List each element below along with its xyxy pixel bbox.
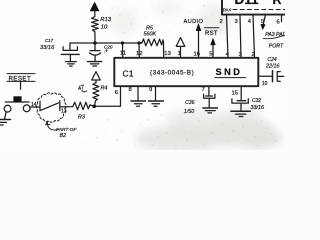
svg-text:C24: C24 (268, 57, 277, 63)
wire D11 pin3 to C1 pin3 (240, 15, 241, 58)
svg-text:C32: C32 (252, 98, 261, 104)
svg-text:33/16: 33/16 (40, 45, 55, 51)
paper background (0, 0, 285, 150)
wire pin 12 stub (138, 43, 140, 58)
resistor R4 (93, 83, 99, 107)
svg-text:7: 7 (202, 87, 205, 93)
dashed outline part of B2 (37, 93, 67, 122)
wire pin 11 stub (122, 43, 124, 58)
scan noise top right (111, 1, 232, 35)
svg-text:5: 5 (261, 19, 264, 25)
capacitor C24 (273, 71, 284, 82)
ground under C36 (203, 108, 218, 113)
svg-text:22/16: 22/16 (265, 63, 280, 69)
svg-text:R: R (273, 0, 282, 7)
reset pushbutton SW (4, 96, 30, 112)
svg-text:.+: .+ (104, 48, 108, 54)
svg-text:33/16: 33/16 (251, 105, 265, 111)
pin 9 stub (155, 86, 157, 101)
capacitor C32 (232, 99, 248, 111)
wire left contact to ground (5, 112, 7, 119)
svg-text:R4: R4 (101, 85, 108, 91)
capacitor C17 (62, 43, 80, 61)
pin name PA0 with dashed bus (223, 8, 285, 13)
leader squiggle to PART OF B2 (48, 121, 58, 130)
ground under pin 8 (131, 101, 146, 106)
svg-text:560K: 560K (144, 31, 157, 37)
svg-text:12: 12 (136, 51, 143, 57)
svg-text:10: 10 (262, 81, 268, 87)
svg-text:9: 9 (149, 87, 152, 93)
svg-text:16: 16 (194, 52, 201, 58)
svg-text:B2: B2 (60, 133, 67, 139)
svg-text:SND: SND (216, 67, 243, 77)
IC C1 box (114, 58, 258, 86)
ground under C32 (231, 111, 250, 116)
svg-text:D11: D11 (235, 0, 260, 7)
svg-text:15: 15 (232, 91, 239, 97)
node junction R4/R3/pin6 (92, 105, 96, 109)
open arrow on pin 1 (176, 38, 185, 58)
wire pin 13 stub from R5 (163, 43, 165, 58)
capacitor C36 (204, 94, 215, 108)
IC D11 box (partially visible) (222, 0, 285, 15)
svg-text:PA3 PAD: PA3 PAD (265, 32, 285, 38)
svg-text:R3: R3 (78, 115, 85, 121)
svg-text:6: 6 (277, 19, 280, 25)
pin 6 stub and wire to R4 node (94, 86, 121, 106)
D11 pin 6 stub (281, 15, 283, 22)
switch contact inside B2 (part of B2) (40, 101, 60, 111)
resistor R3 (60, 102, 94, 110)
node junction dot R13/C20 (93, 41, 96, 44)
ground under C17 (66, 62, 76, 66)
wire main horizontal node (70, 42, 142, 44)
svg-text:AUDIO: AUDIO (184, 19, 204, 25)
pin 15 stub (240, 86, 242, 100)
pin 7 stub (208, 86, 210, 96)
svg-text:11: 11 (120, 51, 126, 57)
svg-text:C17: C17 (45, 38, 54, 43)
svg-text:10: 10 (101, 24, 108, 30)
open arrow supply above R4 (92, 72, 101, 83)
svg-text:C36: C36 (185, 100, 194, 106)
D11 pin 5 arrow to PA3 (261, 15, 266, 30)
wire button to pin 14 (30, 106, 40, 108)
power arrow (supply) above R13 (90, 2, 99, 16)
wire D11 pin2 to C1 pin4 (227, 15, 229, 58)
ground under C20 (88, 62, 102, 66)
AUDIO arrow on pin 16 (196, 24, 201, 58)
svg-text:2: 2 (220, 19, 223, 25)
pin 10 wire to C24 (258, 75, 272, 77)
ground under pin 9 (149, 101, 164, 106)
svg-text:R13: R13 (100, 17, 111, 23)
wire R13 to node (94, 32, 96, 43)
scan speckles (84, 4, 276, 146)
ground under button (0, 120, 11, 126)
resistor R13 (92, 17, 99, 32)
resistor R5 (139, 39, 164, 46)
pin 8 stub (137, 86, 139, 101)
svg-text:0: 0 (229, 8, 231, 12)
svg-text:RST: RST (205, 31, 218, 37)
scan noise bottom (135, 105, 282, 152)
label SND underlined (215, 67, 246, 77)
label RST with overline (205, 28, 220, 37)
svg-text:(343-0045-B): (343-0045-B) (150, 70, 194, 77)
node junction dot pin12 (137, 41, 140, 44)
wire D11 pin4 to C1 pin2 (253, 15, 255, 58)
svg-text:13: 13 (164, 51, 171, 57)
svg-text:1: 1 (178, 51, 181, 57)
node junction dot pin11 (121, 41, 124, 44)
RST arrow on pin 5 (211, 39, 215, 58)
capacitor C20 (89, 43, 100, 61)
svg-text:3: 3 (235, 19, 238, 25)
svg-text:1/50: 1/50 (184, 109, 195, 115)
label RESET with over/underline (7, 74, 35, 90)
svg-text:C1: C1 (123, 69, 134, 79)
svg-text:PORT: PORT (269, 43, 284, 49)
